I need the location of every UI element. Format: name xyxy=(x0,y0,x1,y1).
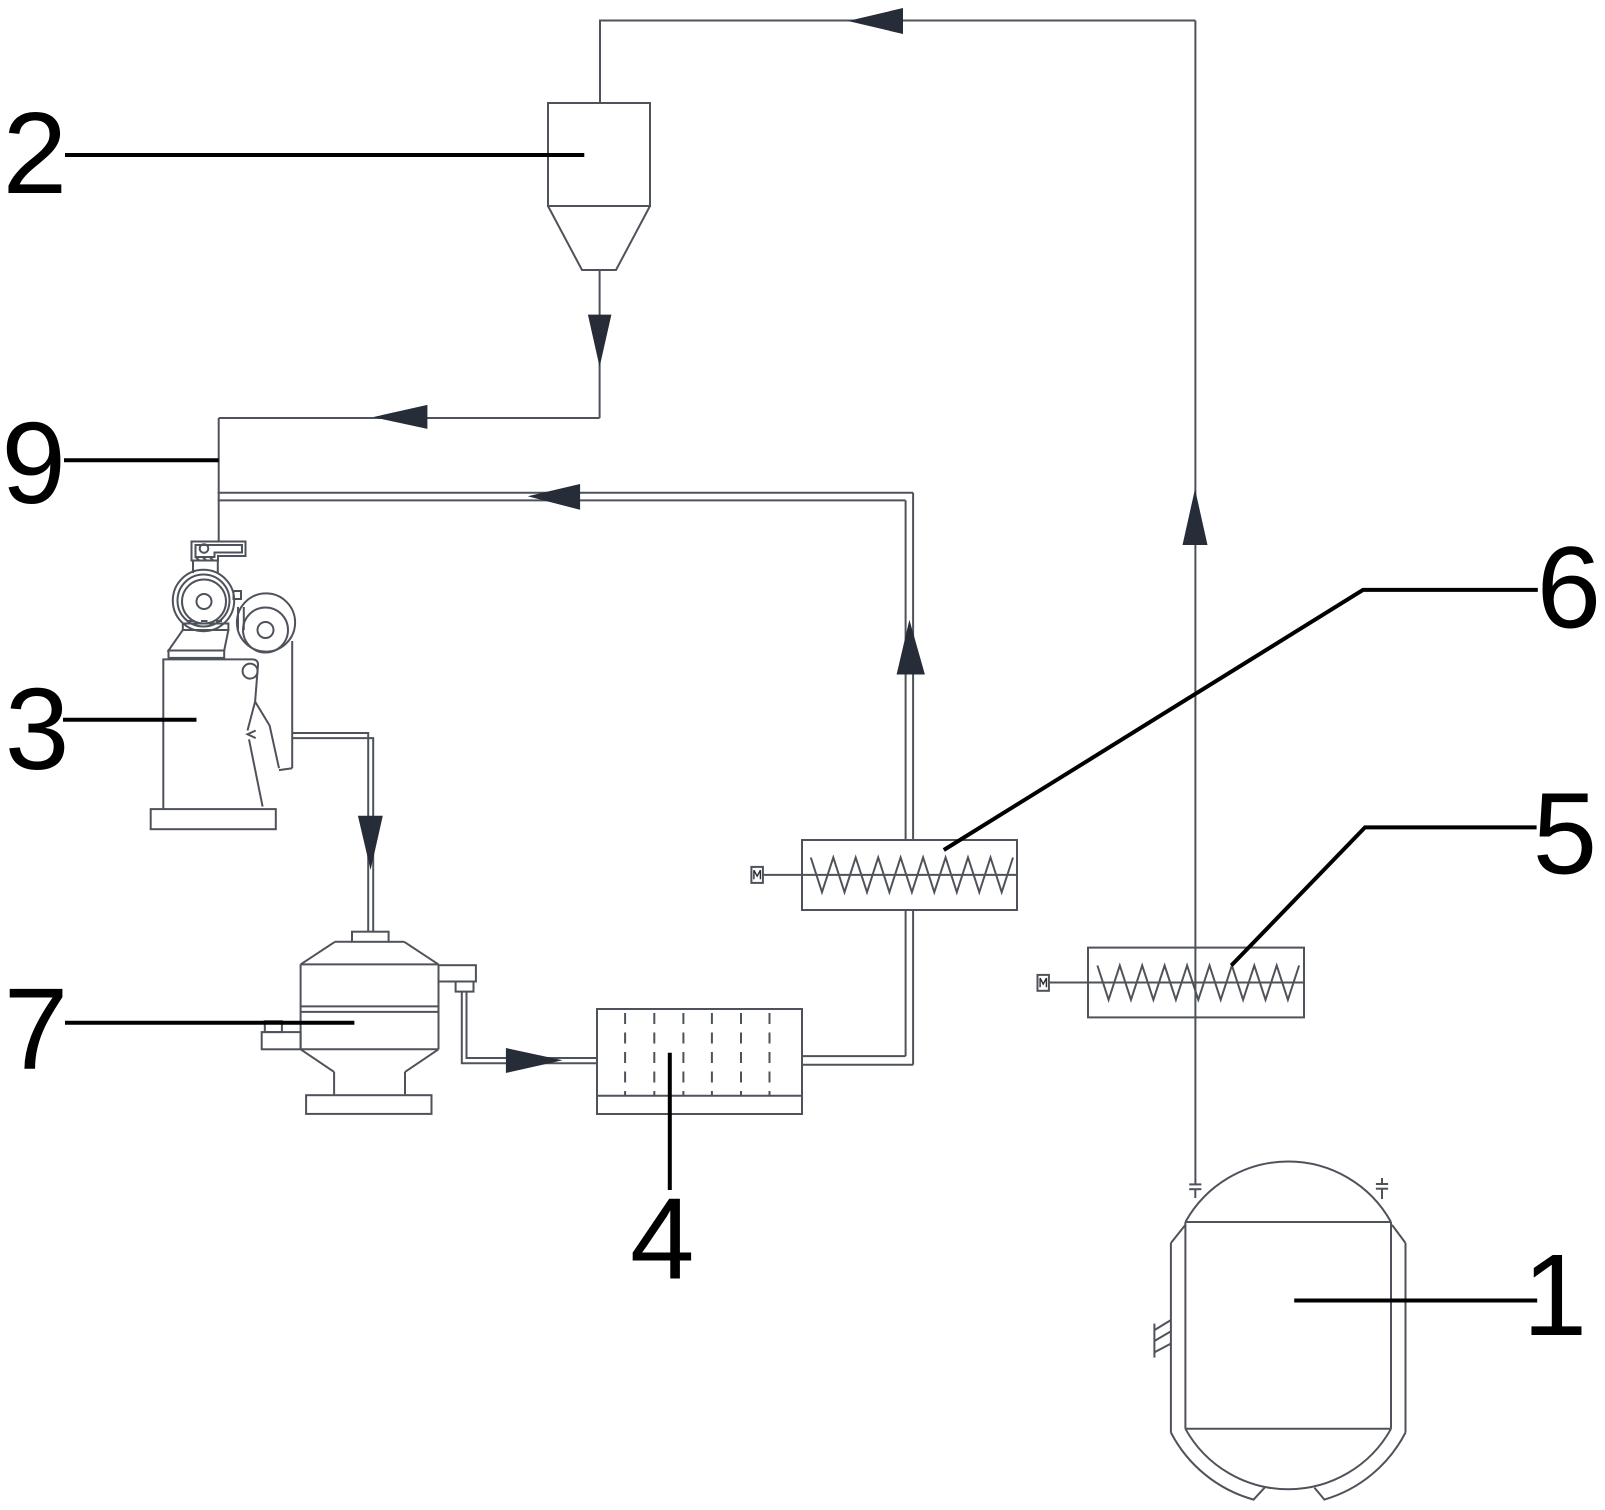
svg-text:7: 7 xyxy=(4,963,69,1093)
wire mill outlet pipe (double line) xyxy=(292,733,368,932)
mill 3 second wheel xyxy=(237,593,295,652)
wire mill feed vertical xyxy=(218,418,220,542)
svg-text:3: 3 xyxy=(5,664,70,794)
mill 3 neck xyxy=(193,561,218,574)
svg-text:6: 6 xyxy=(1537,523,1602,653)
arrow dryer outlet right xyxy=(506,1048,563,1073)
arrow mill outlet down xyxy=(358,816,383,870)
wire filter outlet horizontal (double line) xyxy=(802,1064,913,1066)
filter 4 xyxy=(597,1009,802,1114)
dryer 7 xyxy=(301,932,439,1114)
label pointer 4 xyxy=(668,1053,672,1190)
label pointer 6 xyxy=(944,590,1538,850)
arrow riser up xyxy=(897,620,925,675)
motor M of conveyor 6 xyxy=(751,867,763,883)
mill 3 main wheel xyxy=(173,570,234,631)
cyclone separator 2 xyxy=(548,103,650,270)
wire dryer outlet pipe (double line) xyxy=(462,992,597,1064)
wire right riser pipe xyxy=(1194,21,1196,1185)
reactor 1 support bracket xyxy=(1154,1320,1170,1358)
mill 3 pivot xyxy=(243,664,258,679)
arrow return pipe left xyxy=(528,484,580,510)
label pointer 7 xyxy=(65,1021,354,1025)
reactor 1 left nozzle flange xyxy=(1189,1184,1201,1198)
label pointer 3 xyxy=(63,718,197,722)
arrow reactor riser up xyxy=(1183,489,1208,545)
svg-text:5: 5 xyxy=(1533,769,1598,899)
dryer 7 left flange xyxy=(262,1021,301,1049)
arrow to mill left xyxy=(373,405,428,429)
label pointer 9 xyxy=(64,458,219,462)
arrow top line left xyxy=(848,8,903,34)
svg-text:2: 2 xyxy=(3,88,68,218)
svg-text:9: 9 xyxy=(1,398,66,528)
mill 3 side tab xyxy=(234,591,242,599)
wire hopper outlet down xyxy=(599,270,601,418)
reactor 1 right nozzle xyxy=(1376,1178,1388,1199)
label pointer 5 xyxy=(1231,827,1536,965)
wire horizontal to mill inlet xyxy=(219,417,600,419)
label M motor 6 xyxy=(754,870,761,879)
label pointer 2 xyxy=(65,153,584,157)
arrow hopper outlet down xyxy=(588,315,612,367)
wire return pipe horizontal (double line) xyxy=(218,492,913,494)
mill 3 base plate xyxy=(151,809,276,829)
mill 3 wheel mount xyxy=(169,621,229,658)
dryer 7 right outlet xyxy=(439,965,476,991)
wire return pipe vertical (double line) xyxy=(912,493,914,840)
label M motor 5 xyxy=(1040,978,1046,987)
svg-text:1: 1 xyxy=(1523,1230,1588,1360)
reactor 1 vessel xyxy=(1185,1162,1391,1490)
wire top return line xyxy=(600,21,1195,104)
screw conveyor 6 xyxy=(763,840,1017,910)
label pointer 1 xyxy=(1294,1299,1537,1303)
motor M of conveyor 5 xyxy=(1038,975,1049,991)
mill 3 top bracket xyxy=(192,542,246,561)
svg-text:4: 4 xyxy=(630,1174,695,1304)
mill 3 body xyxy=(163,641,292,809)
screw conveyor 5 xyxy=(1049,948,1304,1018)
reactor 1 jacket xyxy=(1171,1225,1406,1500)
